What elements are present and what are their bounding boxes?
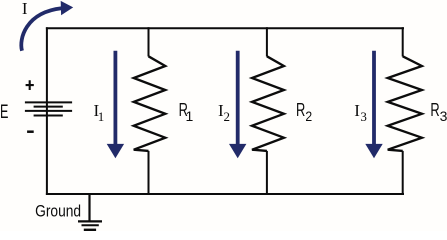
wire branch 1 bottom <box>148 151 150 195</box>
svg-text:2: 2 <box>305 108 312 124</box>
label R1 <box>179 100 194 124</box>
battery positive terminal + <box>26 80 34 90</box>
svg-text:E: E <box>0 101 8 123</box>
svg-text:1: 1 <box>98 109 105 124</box>
wire branch 1 top <box>148 27 150 56</box>
wire branch 3 bottom <box>402 151 404 195</box>
current arrow I3 <box>365 51 382 158</box>
resistor R2 <box>252 56 284 151</box>
current arrow I1 <box>107 51 124 158</box>
wire branch 2 bottom <box>266 151 268 195</box>
wire bottom (ground node) <box>46 193 404 195</box>
label I2 <box>218 101 230 124</box>
svg-text:I: I <box>22 0 28 18</box>
resistor R3 <box>388 56 422 151</box>
battery negative terminal - <box>27 130 34 133</box>
current arrow I (total current, curved) <box>21 1 73 51</box>
svg-text:Ground: Ground <box>35 201 81 220</box>
label R2 <box>296 100 312 124</box>
ground <box>78 194 102 230</box>
svg-text:3: 3 <box>440 108 447 124</box>
svg-text:3: 3 <box>360 109 367 124</box>
label I1 <box>94 101 105 124</box>
svg-text:1: 1 <box>186 108 194 124</box>
wire branch 3 top <box>402 27 404 56</box>
label I3 <box>354 101 367 124</box>
svg-text:R: R <box>430 100 439 120</box>
wire top (node from battery + to resistor tops) <box>46 27 404 29</box>
battery E (voltage source plates) <box>25 102 72 115</box>
resistor R1 <box>134 56 166 151</box>
label R3 <box>430 100 447 124</box>
svg-text:R: R <box>296 100 305 120</box>
wire branch 2 top <box>266 27 268 56</box>
wire left (battery branch) <box>46 27 48 195</box>
svg-text:I: I <box>354 101 360 120</box>
svg-text:2: 2 <box>224 109 231 124</box>
current arrow I2 <box>229 51 246 158</box>
